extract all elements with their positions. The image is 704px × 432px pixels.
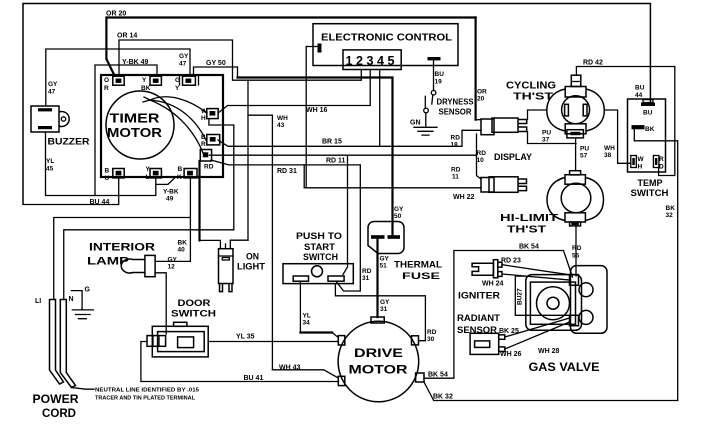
svg-text:H: H <box>638 164 643 171</box>
timer terminal G/Y <box>183 76 196 85</box>
svg-text:BK: BK <box>141 85 151 92</box>
valve terminals <box>570 275 579 286</box>
wire Y-BK 49 lower: B/K terminal jog <box>156 178 175 185</box>
svg-text:W: W <box>201 108 208 115</box>
svg-text:Y-BK: Y-BK <box>163 189 179 196</box>
svg-text:FUSE: FUSE <box>402 271 440 281</box>
svg-text:BK: BK <box>178 240 188 247</box>
wire BK40: timer B/K down to interior lamp <box>155 177 190 261</box>
svg-text:TRACER AND TIN PLATED TERMINAL: TRACER AND TIN PLATED TERMINAL <box>95 396 195 402</box>
timer terminal B/U <box>113 169 124 178</box>
svg-text:TEMP: TEMP <box>638 178 663 188</box>
wire RD11: timer RD terminal to display lower plug <box>210 154 477 156</box>
wire WH38: cycling right to temp switch <box>604 110 631 163</box>
svg-text:MOTOR: MOTOR <box>107 126 162 140</box>
svg-text:50: 50 <box>394 213 402 220</box>
svg-text:10: 10 <box>477 157 485 164</box>
svg-text:RD 42: RD 42 <box>583 60 603 67</box>
svg-text:DISPLAY: DISPLAY <box>494 152 532 162</box>
svg-text:RADIANT: RADIANT <box>457 313 500 324</box>
svg-text:RD 23: RD 23 <box>501 258 521 265</box>
svg-text:TH'ST: TH'ST <box>507 225 546 236</box>
timer terminal RD <box>200 150 211 162</box>
thermal fuse <box>368 222 404 254</box>
svg-text:WH: WH <box>604 145 615 152</box>
svg-text:WH 24: WH 24 <box>482 281 504 288</box>
svg-text:GY: GY <box>179 53 189 60</box>
svg-text:BK 54: BK 54 <box>519 243 539 250</box>
svg-text:OR: OR <box>477 89 487 96</box>
wires RD23/WH24 to gas valve <box>502 265 570 280</box>
timer terminal Y/BK <box>150 76 161 85</box>
svg-text:CORD: CORD <box>42 408 76 420</box>
svg-text:LIGHT: LIGHT <box>237 262 266 272</box>
svg-text:Y: Y <box>175 85 180 92</box>
svg-text:GAS VALVE: GAS VALVE <box>529 360 600 374</box>
svg-text:BK 54: BK 54 <box>428 372 448 379</box>
svg-text:YL: YL <box>46 158 54 165</box>
svg-text:GY: GY <box>168 257 178 264</box>
wire RD42 <box>576 67 674 176</box>
svg-text:BK: BK <box>666 205 676 212</box>
svg-text:DRYNESS: DRYNESS <box>437 97 474 107</box>
wire GY50: G/Y terminal right, down, thick across to thermal fuse <box>194 67 238 78</box>
wire WH43 lower to motor <box>272 370 338 378</box>
svg-text:BR 15: BR 15 <box>322 139 342 146</box>
svg-text:H: H <box>201 115 206 122</box>
wire N: power cord to WH43 junction <box>64 230 234 300</box>
svg-text:19: 19 <box>435 79 443 86</box>
svg-text:L: L <box>146 174 150 181</box>
svg-text:BU: BU <box>635 85 645 92</box>
svg-text:BU 41: BU 41 <box>244 375 264 382</box>
ground GN <box>414 127 437 135</box>
svg-text:RD 11: RD 11 <box>326 157 346 164</box>
svg-text:GY: GY <box>394 206 404 213</box>
svg-text:NEUTRAL LINE IDENTIFIED BY .01: NEUTRAL LINE IDENTIFIED BY .015 <box>95 388 200 394</box>
svg-text:ON: ON <box>246 252 259 262</box>
wire BU41: door switch to motor <box>141 342 338 382</box>
wire BU27 loop <box>515 276 569 315</box>
svg-text:N: N <box>69 296 74 303</box>
svg-text:TIMER: TIMER <box>110 112 160 126</box>
igniter <box>472 263 493 275</box>
svg-text:BK: BK <box>645 126 655 133</box>
timer terminal Y/L <box>150 169 161 178</box>
interior lamp <box>121 259 145 273</box>
svg-text:44: 44 <box>635 92 643 99</box>
electronic control box <box>313 24 458 66</box>
timer box <box>101 75 223 177</box>
svg-text:LI: LI <box>35 298 41 305</box>
svg-text:RD: RD <box>362 268 372 275</box>
drive motor <box>338 321 419 402</box>
wire BU44 outer loop (left border, top border, down to temp switch) <box>23 4 650 205</box>
svg-text:G: G <box>175 77 180 84</box>
wire PU37 <box>575 138 577 171</box>
buzzer <box>31 106 59 132</box>
svg-text:BU: BU <box>643 109 653 116</box>
svg-text:RD: RD <box>451 167 461 174</box>
wire OR14: O/R terminal to e-control pin2 <box>119 40 361 80</box>
svg-text:49: 49 <box>166 196 174 203</box>
svg-text:BU 44: BU 44 <box>90 199 110 206</box>
svg-text:45: 45 <box>46 166 54 173</box>
svg-text:38: 38 <box>604 152 612 159</box>
timer terminal W/H <box>207 109 218 119</box>
svg-text:PU: PU <box>542 130 551 137</box>
svg-text:IGNITER: IGNITER <box>458 291 500 302</box>
svg-text:Y-BK 49: Y-BK 49 <box>122 59 149 66</box>
ON light component <box>219 249 234 284</box>
svg-text:WH 22: WH 22 <box>453 194 475 201</box>
svg-text:47: 47 <box>179 61 187 68</box>
wires BK25 / WH26 / WH28 <box>505 318 570 337</box>
svg-text:57: 57 <box>580 153 588 160</box>
svg-text:51: 51 <box>380 263 388 270</box>
display connectors <box>481 119 494 135</box>
svg-text:R: R <box>104 85 109 92</box>
svg-text:POWER: POWER <box>33 394 80 406</box>
wire WH43 upper: W/H terminal down to N line <box>209 119 234 230</box>
svg-text:Y: Y <box>146 166 151 173</box>
e-control left terminal <box>318 44 322 53</box>
svg-text:GY: GY <box>48 81 58 88</box>
wire LI: power cord to timer B/K <box>54 218 191 300</box>
svg-text:DOOR: DOOR <box>178 298 212 308</box>
svg-text:RD: RD <box>427 329 437 336</box>
svg-text:SENSOR: SENSOR <box>457 325 497 336</box>
wire GY51/GY31: fuse to drive motor <box>376 239 378 317</box>
svg-text:20: 20 <box>477 96 485 103</box>
temp switch <box>628 99 666 172</box>
wire RD31 branch to switch right terminal <box>343 155 348 274</box>
svg-text:PU: PU <box>580 146 589 153</box>
svg-text:GY: GY <box>380 256 390 263</box>
svg-text:RD: RD <box>477 150 487 157</box>
svg-text:INTERIOR: INTERIOR <box>89 242 155 254</box>
svg-text:B: B <box>105 168 110 175</box>
timer cam wiper curves <box>150 97 207 113</box>
wire YL34: switch to drive motor <box>299 281 301 332</box>
svg-text:R: R <box>659 156 664 163</box>
svg-text:ELECTRONIC CONTROL: ELECTRONIC CONTROL <box>321 32 453 44</box>
svg-text:WH 16: WH 16 <box>306 107 328 114</box>
svg-text:SWITCH: SWITCH <box>631 188 669 198</box>
wire BU19 + dryness sensor <box>433 61 435 91</box>
svg-text:MOTOR: MOTOR <box>349 365 409 377</box>
svg-text:11: 11 <box>452 174 459 181</box>
wire BK: temp switch to right side down <box>634 129 677 400</box>
svg-text:BU27: BU27 <box>517 288 524 305</box>
svg-text:O: O <box>104 77 109 84</box>
svg-text:GY 50: GY 50 <box>206 60 226 67</box>
svg-text:START: START <box>304 242 336 252</box>
svg-text:31: 31 <box>380 306 388 313</box>
svg-text:WH: WH <box>277 115 288 122</box>
wire YL35: door switch to motor <box>208 341 338 343</box>
svg-text:SENSOR: SENSOR <box>439 107 472 117</box>
svg-text:RD: RD <box>572 245 582 252</box>
wire BK54: motor to igniter circuit <box>424 251 573 379</box>
svg-text:CYCLING: CYCLING <box>506 81 556 92</box>
wire to ON light right <box>247 80 249 240</box>
svg-text:GY: GY <box>380 299 390 306</box>
svg-text:WH 43: WH 43 <box>279 365 301 372</box>
svg-text:30: 30 <box>427 336 435 343</box>
svg-text:40: 40 <box>178 247 186 254</box>
svg-text:BK 32: BK 32 <box>433 394 453 401</box>
e-control pin block 1 2 3 4 5 <box>343 50 401 70</box>
wire cycling left to display <box>528 110 547 120</box>
svg-text:SWITCH: SWITCH <box>171 309 216 319</box>
svg-text:TH'ST: TH'ST <box>513 92 553 103</box>
svg-text:RD: RD <box>451 135 461 142</box>
svg-text:THERMAL: THERMAL <box>394 260 443 270</box>
svg-text:WH 28: WH 28 <box>538 348 560 355</box>
wire GY47: buzzer to timer G/Y terminal <box>46 49 190 106</box>
svg-text:B: B <box>201 134 206 141</box>
svg-text:BU: BU <box>435 71 445 78</box>
wire BU44 bottom segment to timer BU terminal <box>23 178 119 204</box>
svg-text:12: 12 <box>168 264 176 271</box>
svg-text:31: 31 <box>362 275 370 282</box>
svg-text:RD: RD <box>204 164 214 171</box>
wire OR20 thick: top to display upper plug <box>106 18 475 75</box>
wire BK32: motor to right side <box>424 382 678 401</box>
svg-text:47: 47 <box>48 89 56 96</box>
svg-text:55: 55 <box>572 253 580 260</box>
svg-text:YL 35: YL 35 <box>236 334 255 341</box>
svg-text:Y: Y <box>142 77 147 84</box>
gas valve assembly <box>526 275 582 331</box>
wire RD55: hi-limit to gas valve <box>575 226 577 276</box>
svg-text:SWITCH: SWITCH <box>303 252 338 262</box>
svg-text:DRIVE: DRIVE <box>354 348 403 360</box>
svg-text:HI-LIMIT: HI-LIMIT <box>500 213 558 224</box>
svg-text:43: 43 <box>277 122 285 129</box>
wire RD10: display upper plug to lower plug <box>477 134 482 179</box>
timer terminal B/K <box>184 169 197 178</box>
svg-text:32: 32 <box>666 212 674 219</box>
svg-text:B: B <box>178 166 183 173</box>
svg-text:BUZZER: BUZZER <box>48 137 91 147</box>
svg-text:R: R <box>201 141 206 148</box>
svg-text:G: G <box>85 287 91 294</box>
svg-text:GN: GN <box>410 120 421 127</box>
svg-text:W: W <box>638 156 645 163</box>
svg-text:PUSH TO: PUSH TO <box>296 231 342 241</box>
wire WH22: e-control common down and across to display lower plug <box>304 165 481 188</box>
svg-text:K: K <box>177 174 182 181</box>
wire RD31: RD terminal diag, across, down to push-to-start switch <box>211 160 360 291</box>
svg-text:YL: YL <box>303 313 311 320</box>
svg-text:WH 26: WH 26 <box>500 351 522 358</box>
svg-text:RD 31: RD 31 <box>277 168 297 175</box>
wire GY12: lamp to door switch <box>155 273 166 334</box>
wire RD30: switch to motor start terminal <box>335 284 425 341</box>
wire YL45: buzzer to timer Y/L terminal <box>46 132 156 196</box>
wire BR15 / RD18: timer B/R terminal to e-control pin4 and display upper plug <box>218 130 481 146</box>
svg-text:37: 37 <box>542 137 550 144</box>
svg-text:OR 20: OR 20 <box>106 11 126 18</box>
svg-text:1 2 3 4 5: 1 2 3 4 5 <box>346 53 395 68</box>
svg-text:D: D <box>659 164 664 171</box>
wire Y-BK 49 top: to timer Y/BK terminal <box>95 65 157 196</box>
svg-text:LAMP: LAMP <box>87 256 129 268</box>
wire RD thick: timer RD terminal down to ON light left <box>198 161 200 240</box>
svg-text:OR 14: OR 14 <box>117 33 137 40</box>
wire WH16: timer W/H terminal to e-control pin3 <box>219 70 371 113</box>
svg-text:BK 25: BK 25 <box>499 328 519 335</box>
svg-text:18: 18 <box>451 142 459 149</box>
svg-text:34: 34 <box>303 320 311 327</box>
timer terminal O/R <box>113 76 124 85</box>
timer terminal B/R <box>207 135 220 145</box>
timer motor circle <box>106 91 174 159</box>
svg-text:U: U <box>105 175 110 182</box>
